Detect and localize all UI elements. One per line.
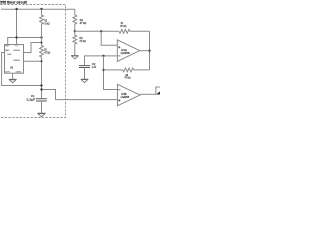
svg-text:555: 555 — [7, 54, 11, 56]
ground R6 — [71, 56, 78, 60]
svg-text:555 timer circuit: 555 timer circuit — [0, 0, 27, 4]
svg-text:RESET: RESET — [5, 46, 9, 48]
svg-text:47 kΩ: 47 kΩ — [125, 76, 131, 80]
node rail-R2 — [40, 8, 42, 10]
resistor R1 — [40, 46, 44, 99]
svg-text:10 kΩ: 10 kΩ — [44, 22, 49, 26]
node vcc-reset — [15, 36, 17, 38]
resistor R2 — [40, 9, 44, 45]
node rail-vcc — [15, 8, 17, 10]
svg-text:U1: U1 — [10, 66, 14, 69]
svg-text:DISCHARGE: DISCHARGE — [13, 49, 20, 52]
wire reset elbow — [8, 38, 42, 45]
wire to +in U4A — [101, 31, 117, 45]
wire feedback drop — [149, 31, 151, 70]
node divider — [74, 30, 76, 32]
svg-text:LM358: LM358 — [121, 95, 130, 99]
wire U4B out — [140, 93, 156, 95]
svg-text:TRIGGER: TRIGGER — [5, 50, 10, 52]
ground U1 — [9, 79, 16, 83]
svg-text:LM358: LM358 — [121, 51, 131, 55]
wire cap node to comparator — [42, 90, 118, 100]
wire discharge jog — [24, 43, 42, 53]
resistor R3 — [73, 9, 77, 31]
IC U1 555 — [5, 45, 24, 74]
svg-text:THRESHOLD: THRESHOLD — [13, 60, 21, 62]
node noninv tap — [100, 30, 102, 32]
output terminal — [156, 87, 161, 95]
wire trigger route — [2, 53, 42, 86]
svg-text:47 kΩ: 47 kΩ — [120, 24, 126, 28]
node U4A out — [148, 50, 150, 52]
node R8 tap — [102, 69, 104, 71]
resistor R8 — [104, 68, 150, 72]
ground C1 — [38, 113, 46, 117]
svg-text:2.2µF: 2.2µF — [27, 97, 36, 101]
svg-text:47 kΩ: 47 kΩ — [44, 50, 50, 54]
svg-text:OUTPUT: OUTPUT — [5, 71, 11, 73]
wire C2 node down — [104, 56, 118, 90]
wire VCC drop to U1 — [16, 9, 18, 44]
op-amp U4B — [117, 84, 140, 106]
svg-text:47 kΩ: 47 kΩ — [80, 21, 87, 25]
ground C2 — [81, 79, 88, 83]
capacitor C2 — [79, 66, 90, 68]
op-amp U4A — [117, 40, 139, 62]
dashed subcircuit border — [0, 5, 66, 118]
svg-text:CONTROL: CONTROL — [16, 71, 22, 73]
svg-text:47 kΩ: 47 kΩ — [79, 39, 85, 43]
svg-text:1 nF: 1 nF — [92, 65, 97, 69]
wire VCC rail — [1, 8, 75, 10]
node R2-R1 — [40, 36, 42, 38]
resistor R4 — [119, 29, 150, 33]
resistor R6 — [73, 31, 77, 55]
wire threshold — [24, 60, 42, 62]
wire U4A out — [140, 50, 150, 52]
wire -in U4A — [85, 56, 118, 66]
wire U1 gnd — [12, 73, 14, 79]
svg-text:VCC: VCC — [15, 46, 20, 48]
node C2 tap — [102, 55, 104, 57]
wire divider to R4 — [75, 30, 119, 32]
capacitor C1 — [36, 99, 47, 101]
